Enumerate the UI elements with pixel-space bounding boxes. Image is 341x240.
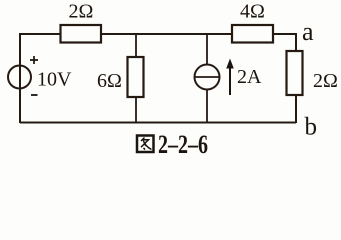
svg-text:2Ω: 2Ω (69, 1, 94, 23)
svg-text:2–2–6: 2–2–6 (158, 130, 208, 157)
wire left (19, 33, 21, 123)
svg-text:b: b (305, 114, 318, 141)
voltage source U1 circle (8, 66, 31, 89)
svg-text:2A: 2A (237, 66, 262, 88)
voltage source plus sign (30, 56, 38, 64)
svg-text:10V: 10V (37, 69, 72, 91)
current source bar (195, 76, 220, 78)
svg-text:4Ω: 4Ω (240, 1, 265, 23)
current source I1 circle (195, 65, 220, 90)
current source arrow 2A (229, 66, 231, 95)
resistor 2ohm right (287, 51, 303, 95)
svg-text:a: a (302, 17, 314, 46)
voltage source minus sign (31, 94, 38, 96)
resistor 4ohm (232, 25, 273, 43)
wire branch 6ohm (135, 34, 137, 123)
svg-text:6Ω: 6Ω (97, 70, 122, 92)
wire branch current source (206, 34, 208, 123)
resistor 6ohm (128, 57, 144, 97)
wire top (20, 33, 296, 35)
wire right (295, 33, 297, 123)
svg-text:2Ω: 2Ω (313, 70, 338, 92)
wire bottom (20, 122, 296, 124)
caption hanzi tu (drawn) (137, 136, 154, 153)
resistor 2ohm top-left (61, 25, 102, 43)
